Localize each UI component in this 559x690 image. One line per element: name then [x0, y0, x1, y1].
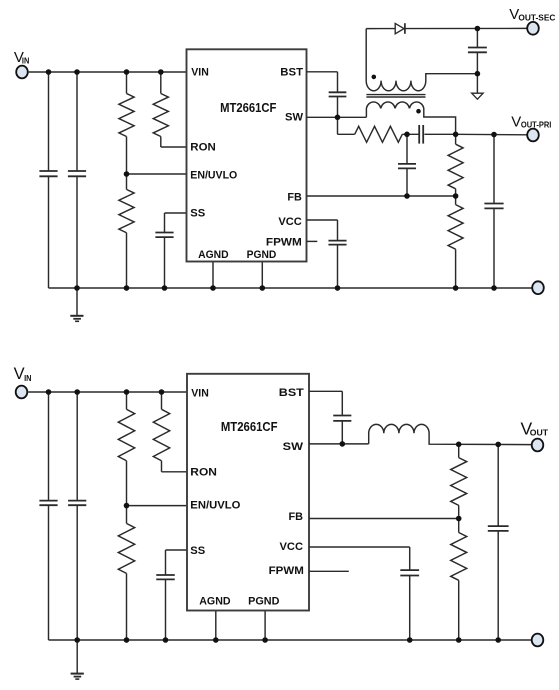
svg-text:BST: BST — [279, 387, 304, 399]
svg-text:OUT-SEC: OUT-SEC — [518, 13, 555, 23]
svg-text:OUT-PRI: OUT-PRI — [521, 120, 552, 130]
svg-text:AGND: AGND — [199, 596, 230, 608]
svg-text:EN/UVLO: EN/UVLO — [190, 169, 237, 181]
svg-text:VCC: VCC — [278, 216, 301, 228]
svg-text:V: V — [511, 113, 521, 130]
svg-text:BST: BST — [280, 67, 303, 79]
svg-text:VIN: VIN — [191, 66, 209, 78]
svg-text:SS: SS — [190, 207, 205, 219]
svg-text:MT2661CF: MT2661CF — [220, 100, 276, 115]
svg-text:VIN: VIN — [191, 388, 209, 400]
svg-text:IN: IN — [24, 373, 31, 383]
svg-text:SW: SW — [285, 111, 304, 123]
svg-text:PGND: PGND — [247, 249, 277, 261]
svg-text:FB: FB — [287, 191, 301, 203]
svg-text:PGND: PGND — [248, 596, 279, 608]
svg-text:OUT: OUT — [530, 427, 549, 437]
svg-text:RON: RON — [190, 467, 217, 479]
svg-text:EN/UVLO: EN/UVLO — [190, 499, 241, 511]
svg-text:IN: IN — [22, 55, 29, 65]
svg-text:FPWM: FPWM — [266, 237, 302, 249]
svg-text:RON: RON — [190, 142, 216, 154]
svg-text:SS: SS — [190, 545, 205, 557]
svg-text:FPWM: FPWM — [269, 565, 304, 577]
svg-text:SW: SW — [283, 441, 304, 453]
svg-text:AGND: AGND — [198, 249, 229, 261]
svg-text:FB: FB — [289, 511, 304, 523]
svg-text:V: V — [14, 365, 25, 383]
svg-text:MT2661CF: MT2661CF — [221, 419, 278, 434]
svg-text:VCC: VCC — [280, 541, 304, 553]
